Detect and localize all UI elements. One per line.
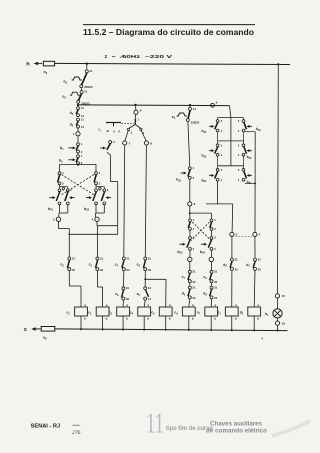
terminal — [209, 257, 213, 261]
svg-text:6: 6 — [140, 108, 142, 112]
svg-text:b0: b0 — [59, 159, 63, 164]
svg-text:d2: d2 — [240, 311, 244, 316]
svg-text:c2: c2 — [88, 311, 92, 316]
svg-text:276: 276 — [72, 430, 81, 436]
footer page rule — [73, 424, 80, 426]
svg-text:4: 4 — [238, 153, 240, 157]
svg-text:31: 31 — [258, 257, 262, 261]
svg-text:11: 11 — [81, 106, 84, 110]
svg-text:d2: d2 — [203, 291, 207, 296]
pushbutton b0 NO (1/2) — [77, 155, 80, 158]
fuse e6 bottom — [41, 327, 55, 332]
svg-text:c6: c6 — [174, 311, 178, 316]
svg-text:4: 4 — [221, 178, 223, 182]
svg-text:a: a — [235, 303, 237, 307]
svg-text:22Θ23: 22Θ23 — [191, 120, 200, 124]
wire grid output drop to terminal 3 — [231, 204, 234, 232]
wire grid tie 2 — [218, 140, 244, 142]
contact b22 upper (1/2) — [95, 172, 98, 175]
wire lamp branch — [277, 64, 280, 293]
svg-text:b: b — [235, 316, 237, 320]
svg-text:1: 1 — [81, 142, 83, 146]
svg-text:21: 21 — [193, 107, 197, 111]
svg-text:e2: e2 — [63, 79, 67, 84]
svg-text:R: R — [26, 62, 30, 68]
contact d1 NC (21/22) — [189, 283, 191, 287]
svg-text:9: 9 — [194, 202, 196, 206]
svg-text:b: b — [106, 316, 108, 320]
svg-text:3: 3 — [221, 168, 223, 172]
contact c6 NC (31/32) — [211, 262, 213, 271]
svg-text:b: b — [192, 316, 194, 320]
svg-text:c1: c1 — [89, 262, 93, 267]
wire terminal down-jog — [96, 222, 98, 226]
svg-text:c2: c2 — [60, 262, 64, 267]
svg-text:d2: d2 — [223, 263, 227, 268]
wire mid — [189, 230, 191, 236]
svg-text:2: 2 — [131, 131, 133, 135]
wire to coil c4 — [144, 300, 145, 307]
wire top bus L1 — [55, 63, 290, 64]
wire to lower terminal — [189, 250, 191, 257]
wire arm2 to terminal 7 — [125, 131, 128, 141]
svg-text:31: 31 — [126, 256, 130, 260]
svg-text:e6: e6 — [44, 70, 48, 75]
svg-text:⁄60Hz: ⁄60Hz — [119, 54, 141, 60]
svg-text:a: a — [257, 303, 259, 307]
svg-text:0: 0 — [113, 129, 115, 133]
svg-text:a: a — [169, 303, 171, 307]
svg-text:b: b — [214, 316, 216, 320]
svg-text:4: 4 — [214, 247, 216, 251]
svg-text:2: 2 — [214, 227, 216, 231]
wire d2-terminal1 — [77, 128, 79, 132]
svg-text:32: 32 — [214, 280, 218, 284]
svg-text:b: b — [169, 316, 171, 320]
terminal 2 — [56, 217, 60, 221]
contact b32 (3/4) — [217, 118, 219, 120]
svg-text:32: 32 — [72, 268, 76, 272]
svg-text:4: 4 — [221, 129, 223, 133]
svg-text:8: 8 — [150, 141, 152, 145]
svg-text:2: 2 — [62, 182, 64, 186]
contact c4 NC (31/32) — [122, 257, 125, 260]
contact b23 upper (1/2) — [189, 219, 192, 222]
svg-text:11: 11 — [146, 407, 164, 439]
wire terminal1-b1 — [77, 136, 79, 143]
svg-text:13: 13 — [148, 286, 152, 290]
svg-text:a: a — [192, 303, 194, 307]
wire coil c2 to bottom bus — [102, 316, 104, 330]
wire tie bar — [69, 233, 117, 235]
wire to coil d2 — [253, 270, 256, 307]
svg-text:7: 7 — [129, 141, 131, 145]
svg-text:4: 4 — [238, 129, 240, 133]
junction lamp-bottom bus — [276, 329, 278, 331]
terminal 6 — [134, 110, 138, 114]
svg-text:b1: b1 — [60, 146, 64, 151]
contact b33 (3/4) — [217, 141, 219, 144]
wire coil d1 to bottom bus — [231, 316, 233, 330]
tap terminal — [99, 187, 101, 189]
contact d2 NC (11/12) — [77, 118, 80, 121]
svg-text:4: 4 — [91, 218, 93, 222]
wire d1 feed from b35 — [245, 131, 255, 133]
svg-text:b21: b21 — [48, 207, 54, 212]
fuse e6 top — [43, 61, 54, 66]
svg-text:1: 1 — [214, 218, 216, 222]
terminal 3 — [230, 232, 234, 236]
wire grid output horizontal — [206, 203, 233, 205]
svg-text:02: 02 — [98, 127, 102, 132]
terminal 7 — [123, 141, 127, 145]
svg-text:c5: c5 — [137, 292, 141, 297]
svg-text:1: 1 — [81, 154, 83, 158]
coil c7 — [205, 307, 218, 316]
svg-text:b35: b35 — [256, 127, 261, 132]
wire c2contact to coil c1 — [68, 271, 70, 286]
svg-text:d1: d1 — [70, 111, 74, 116]
wire c1contact to coil c2 — [96, 271, 98, 287]
svg-text:3: 3 — [221, 119, 223, 123]
junction bus2 left end — [77, 104, 79, 106]
svg-text:2: 2 — [99, 182, 101, 186]
contact c7 NC (31/32) — [189, 262, 191, 271]
selector contact arm right — [135, 124, 140, 128]
svg-text:3: 3 — [238, 144, 240, 148]
svg-text:11.5.2 – Diagrama do circuito: 11.5.2 – Diagrama do circuito de comando — [83, 28, 254, 37]
link dashes terminal3-terminal4 — [235, 235, 252, 237]
wire b1-b0 — [77, 153, 79, 155]
svg-text:e5: e5 — [172, 115, 176, 120]
svg-text:e3: e3 — [62, 94, 66, 99]
svg-text:c3: c3 — [137, 262, 141, 267]
wire grid tie 1 — [218, 117, 244, 119]
svg-text:3: 3 — [221, 144, 223, 148]
wire to lower terminal — [211, 250, 213, 257]
wire terminal down-jog — [58, 222, 60, 229]
coil c3 — [117, 307, 130, 316]
svg-text:d1: d1 — [246, 263, 250, 268]
svg-text:31: 31 — [214, 270, 218, 274]
svg-text:2: 2 — [105, 54, 108, 60]
svg-text:2: 2 — [53, 218, 55, 222]
terminal 4 — [253, 232, 257, 236]
limit switch e2 (21/22) — [85, 70, 88, 73]
wire grid output left — [217, 181, 219, 204]
wire arm4 to terminal 8 — [141, 131, 146, 141]
svg-text:b34: b34 — [202, 178, 207, 183]
svg-text:32: 32 — [235, 267, 239, 271]
svg-text:32: 32 — [126, 268, 130, 272]
pushbutton b24 (3/4) — [210, 237, 213, 240]
svg-text:6: 6 — [216, 101, 218, 105]
wire coil c1 to bottom bus — [80, 316, 82, 330]
wire coil d2 to bottom bus — [253, 316, 255, 330]
svg-text:c5: c5 — [115, 292, 119, 297]
coil c5 — [159, 307, 172, 316]
svg-text:∼: ∼ — [112, 54, 116, 60]
svg-text:A: A — [118, 129, 121, 133]
signal lamp h1 — [273, 309, 282, 318]
wire coil c5 to bottom bus — [165, 316, 167, 330]
svg-text:S: S — [24, 327, 28, 333]
svg-text:21: 21 — [89, 69, 93, 73]
wire bottom bus L2 — [55, 329, 288, 331]
pushbutton b23 (3/4) — [189, 237, 192, 240]
wire terminal4-d1contact — [254, 237, 256, 259]
svg-text:b24: b24 — [200, 250, 206, 255]
contact d2 NC (31/32) — [230, 258, 233, 261]
svg-text:22: 22 — [214, 296, 218, 300]
wire to terminal 6 — [135, 105, 137, 110]
contact d1 NC (11/12) — [77, 107, 80, 110]
wire mid — [211, 230, 213, 236]
wire e2-e3 — [80, 88, 82, 91]
wire to coil c3 — [122, 300, 124, 307]
wire to lower contacts — [95, 185, 97, 189]
svg-text:32: 32 — [258, 267, 262, 271]
svg-text:de comando elétrico: de comando elétrico — [206, 428, 267, 435]
coil c6 — [182, 307, 195, 316]
svg-text:2: 2 — [193, 227, 195, 231]
coil c4 — [138, 307, 151, 316]
title rule — [83, 24, 255, 26]
wire B-contact down — [107, 152, 111, 155]
svg-text:4: 4 — [238, 178, 240, 182]
wire coil c7 to bottom bus — [210, 316, 212, 330]
wire e5 down to b31 — [188, 122, 190, 167]
wire to lower contacts — [59, 185, 61, 189]
wire to coil d1 — [231, 270, 233, 307]
terminal — [188, 257, 192, 261]
selector switch b2 handle — [106, 122, 121, 124]
coil c1 — [75, 307, 88, 316]
tap terminal — [62, 187, 64, 189]
wire coil c6 to bottom bus — [188, 316, 190, 330]
limit switch e3 (21/22) — [80, 91, 83, 94]
mechanical interlock dashes b23-b24 — [192, 222, 211, 241]
svg-text:1: 1 — [73, 132, 75, 136]
wire b31-terminal9 — [189, 179, 191, 202]
svg-text:1: 1 — [193, 166, 195, 170]
svg-text:21: 21 — [84, 90, 88, 94]
svg-text:4: 4 — [259, 233, 261, 237]
svg-text:b31: b31 — [176, 178, 182, 183]
contact c3 NC (31/32) — [144, 257, 147, 260]
svg-text:−220 V: −220 V — [145, 54, 173, 60]
contact c1 NC (31/32) — [96, 234, 98, 257]
terminal 9 — [188, 202, 192, 206]
svg-text:31: 31 — [192, 270, 196, 274]
svg-text:b: b — [84, 316, 86, 320]
svg-text:22Θ23: 22Θ23 — [84, 85, 93, 89]
wire join lower — [95, 205, 97, 213]
svg-text:3: 3 — [113, 140, 115, 144]
junction split b21/b22 — [77, 163, 79, 165]
contact d1 NC (31/32) — [254, 258, 257, 261]
contact b31 (1/2) — [188, 167, 191, 170]
wire R arrow — [34, 62, 39, 65]
svg-text:3: 3 — [238, 119, 240, 123]
aux contact c2 retention (3/4) — [103, 189, 106, 192]
wire terminal16-bus — [277, 325, 279, 330]
mechanical interlock dashes b21-b22 — [62, 175, 95, 195]
svg-text:14: 14 — [148, 297, 152, 301]
junction c3col / c5 coil branch — [144, 271, 146, 287]
selector pole — [134, 119, 136, 125]
svg-text:31: 31 — [100, 256, 104, 260]
svg-text:22: 22 — [192, 296, 196, 300]
terminal 4 — [95, 217, 99, 221]
svg-text:32: 32 — [126, 297, 130, 301]
svg-text:B: B — [107, 129, 110, 133]
wire to coil — [210, 299, 212, 307]
footer scan artifact — [272, 421, 310, 436]
svg-text:32: 32 — [192, 280, 196, 284]
wire terminal9 down / split — [189, 206, 191, 219]
wire branch b22 upper — [95, 164, 97, 171]
contact c5 NC (31/32) lower — [123, 271, 125, 287]
stray mark — [262, 338, 263, 339]
limit switch e5 (21/22) — [189, 105, 191, 107]
svg-text:d1: d1 — [182, 291, 186, 296]
coil d2 — [248, 307, 261, 316]
selector contact arm left — [129, 124, 136, 128]
pushbutton b1 NO (1/2) — [77, 143, 80, 146]
wire grid center column — [230, 118, 232, 166]
svg-text:1: 1 — [137, 118, 139, 122]
terminal 6 on bus2 right — [211, 103, 215, 107]
svg-text:c7: c7 — [197, 311, 201, 316]
pushbutton b21 (3/4) — [58, 189, 61, 192]
svg-text:4: 4 — [193, 247, 195, 251]
wire terminal3-d2contact — [231, 237, 233, 259]
svg-text:31: 31 — [235, 257, 239, 261]
svg-text:b: b — [126, 316, 128, 320]
svg-text:c7: c7 — [182, 275, 186, 280]
svg-text:11: 11 — [81, 117, 84, 121]
wire terminal7 down — [123, 145, 126, 257]
wire branch to coil c5 — [145, 278, 166, 280]
svg-text:a: a — [84, 303, 86, 307]
terminal 8 — [144, 141, 148, 145]
svg-text:Chaves auxiliares: Chaves auxiliares — [210, 421, 262, 428]
svg-text:a: a — [106, 303, 108, 307]
svg-text:1: 1 — [99, 171, 101, 175]
svg-text:c1: c1 — [67, 311, 71, 316]
svg-text:e6: e6 — [43, 336, 47, 341]
svg-text:d2: d2 — [70, 123, 74, 128]
svg-text:b: b — [147, 316, 149, 320]
wire e3 to bus2 junction — [77, 103, 79, 106]
svg-text:1: 1 — [62, 171, 64, 175]
svg-text:3: 3 — [214, 236, 216, 240]
wire lamp-terminal16 — [277, 318, 279, 321]
svg-text:b22: b22 — [84, 207, 90, 212]
svg-text:31: 31 — [126, 286, 130, 290]
svg-text:SENAI - RJ: SENAI - RJ — [31, 423, 61, 429]
wire left chain from top bus — [86, 64, 88, 70]
svg-text:3: 3 — [107, 188, 109, 192]
svg-text:21: 21 — [214, 285, 218, 289]
svg-text:b23: b23 — [177, 250, 183, 255]
wire bus2 end drop to grid — [230, 106, 231, 118]
wire join lower — [59, 205, 61, 213]
terminal 1 — [76, 132, 80, 136]
contact c2 NC (31/32) — [68, 234, 70, 257]
svg-text:c5: c5 — [151, 311, 155, 316]
svg-text:b33: b33 — [202, 153, 207, 158]
junction top bus / lamp branch — [277, 63, 279, 65]
wire terminal8 down — [145, 145, 146, 257]
svg-text:b32: b32 — [202, 129, 207, 134]
contact b24 upper (1/2) — [210, 219, 213, 222]
contact b36 (3/4) — [243, 141, 245, 144]
svg-text:2: 2 — [193, 176, 195, 180]
svg-text:b: b — [257, 316, 259, 320]
svg-text:15: 15 — [282, 294, 286, 298]
coil c2 — [96, 307, 109, 316]
terminal 15 — [275, 294, 279, 298]
svg-text:21: 21 — [192, 285, 196, 289]
wire to coil — [189, 299, 190, 307]
svg-text:12: 12 — [81, 125, 85, 129]
svg-text:a: a — [126, 303, 128, 307]
svg-text:b37: b37 — [247, 180, 252, 185]
svg-text:31: 31 — [148, 256, 152, 260]
wire grid tie 3 — [218, 165, 244, 167]
contact b37 (3/4) — [243, 166, 245, 169]
terminal 16 — [275, 321, 279, 325]
svg-text:a: a — [214, 303, 216, 307]
contact b21 upper (1/2) — [58, 172, 61, 175]
wire terminal15-lamp — [277, 298, 279, 309]
svg-text:31: 31 — [72, 256, 76, 260]
junction bus2 / e5 — [189, 104, 191, 106]
contact b35 (3/4) — [243, 118, 245, 120]
contact b34 (3/4) — [217, 166, 219, 169]
aux contact c1 retention (3/4) — [66, 189, 69, 192]
contact c5 NO (13/14) — [144, 287, 147, 290]
svg-text:c4: c4 — [115, 262, 119, 267]
wire control bus 2 — [78, 104, 230, 107]
wire split header — [60, 163, 97, 165]
svg-text:b36: b36 — [247, 155, 252, 160]
wire terminal6-pole — [135, 114, 137, 118]
svg-text:c4: c4 — [130, 311, 134, 316]
junction bus2 / selector — [134, 104, 136, 106]
pushbutton b22 (3/4) — [95, 189, 98, 192]
wire coil c4 to bottom bus — [143, 316, 145, 330]
svg-text:32: 32 — [148, 268, 152, 272]
contact d2 NC (21/22) — [211, 283, 213, 287]
selector position-B contact 3 — [109, 141, 112, 144]
wire branch b21 upper — [59, 164, 61, 171]
svg-text:4: 4 — [221, 153, 223, 157]
svg-text:1: 1 — [193, 218, 195, 222]
wire coil c3 to bottom bus — [122, 316, 124, 330]
svg-text:c6: c6 — [203, 275, 207, 280]
svg-text:a: a — [147, 303, 149, 307]
wire S arrow — [31, 327, 36, 330]
junction top bus / left chain — [86, 63, 88, 65]
coil d1 — [225, 307, 238, 316]
svg-text:3: 3 — [238, 168, 240, 172]
svg-text:32: 32 — [100, 268, 104, 272]
svg-text:h1: h1 — [265, 312, 269, 317]
svg-text:16: 16 — [282, 321, 286, 325]
